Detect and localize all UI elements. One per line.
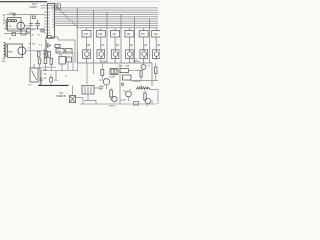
wire Q3 side leads [41,68,47,82]
resistor R4 [38,59,41,64]
inductor L2 core hatches [138,86,148,88]
label C7b 4/0x [2,59,7,64]
label L1 [9,26,12,28]
capacitor C3a electrolytic [27,29,31,33]
svg-text:C3B: C3B [125,66,130,68]
wire Y1 leads [73,86,84,105]
wire Q7 leads [120,90,145,100]
label MPS A05 [99,86,104,91]
module boxes MM531 [56,49,64,54]
transistor Q3 block [30,68,38,82]
label T2 [148,66,151,68]
wire heavy bottom bus of switch row [38,84,69,86]
wire cathode rail right drop [151,63,153,86]
svg-text:TRRETB: TRRETB [56,95,66,98]
pin block U1 bottom [47,36,52,39]
transistor T2 [141,65,146,70]
svg-text:7C3: 7C3 [84,33,89,36]
wire node D long vertical [30,15,32,69]
capacitor C5 [55,44,60,47]
resistor R12 [21,31,26,35]
inductor L2 [137,88,150,90]
capacitor C11 [50,78,53,83]
svg-text:SMD: SMD [8,52,13,54]
pin labels [9] on display drops [87,44,160,47]
svg-text:[9]: [9] [157,44,160,47]
display DS1 [83,50,91,59]
resistor R9 [155,67,158,74]
value labels driver blocks [84,33,158,36]
transistor Q4 [103,79,109,85]
wire Q1 leads [14,15,28,29]
inductor L1 turns [9,19,12,22]
pin numbers U1 left column [49,12,50,33]
transformer T1 core line [5,43,7,57]
label SMD [8,52,13,54]
display DS5 [140,50,148,59]
ground rail bottom [80,103,156,105]
resistor R3 [48,51,51,57]
wire segment bus line b [55,8,159,10]
resistor R10 [144,93,146,100]
node C junction [121,83,123,85]
svg-text:MM: MM [57,51,61,53]
svg-text:[9]: [9] [145,44,148,47]
resistor R7 [120,69,129,73]
value labels 0.5 8.8 [43,54,63,57]
wire node A drop [86,63,88,84]
pin numbers U1 right column [53,7,54,27]
svg-text:C38006: C38006 [132,61,140,63]
wire segment bus line j [55,26,159,28]
resistor R5 [101,69,104,75]
svg-text:[9]: [9] [130,44,133,47]
wire R7 to T2 [129,70,141,72]
capacitor C3 [32,16,35,19]
wire U1 left pin stubs [44,12,48,33]
wire Q5 leads and node B vertical [111,64,120,101]
wire B+ top rail (dark left segment) [0,1,47,3]
wire ground ties [94,63,153,104]
transistor Q5 [112,96,117,101]
capacitor C14 [67,57,72,62]
capacitor C4 plates [35,20,40,29]
label C3B00b [133,81,142,83]
transistor Q1 [17,22,25,30]
display DS2 [97,50,105,59]
transistor Q6 [126,91,132,97]
capacitor C12 [44,58,47,64]
wire junction stub [43,49,45,51]
capacitor C13 [50,58,53,64]
driver block A1 [82,31,91,38]
wire Q6 leads [123,90,129,101]
wire digit select verticals [77,8,150,63]
resistor R8 [140,71,142,78]
display DS4 [126,50,134,59]
wire cathode rail [78,62,152,64]
driver block A5 [139,31,148,38]
label Pa.s +5 [54,76,68,82]
driver block A3 [111,31,120,38]
wire segment bus line d [55,12,159,14]
driver block A4 [125,31,134,38]
svg-text:[9]: [9] [87,44,90,47]
capacitor C2 plates [29,24,33,26]
wire segment bus line g [55,19,159,21]
svg-text:23i: 23i [113,33,117,36]
svg-text:of dFda: of dFda [108,106,116,108]
svg-text:(+5): (+5) [30,35,34,37]
label X11 C38006 [132,59,140,64]
wire C10 C11 leads [41,71,51,85]
transformer T1 primary box [8,18,22,32]
label U.Dk [101,62,107,64]
display DS6 [152,50,160,59]
svg-text:87i: 87i [141,33,145,36]
capacitor C1 [13,13,15,15]
resistor R6 [110,90,113,97]
svg-text:12b: 12b [154,33,159,36]
svg-text:[9]: [9] [116,44,119,47]
label of dFda [108,104,149,108]
svg-text:CHNLY: CHNLY [29,5,38,9]
svg-text:117 V.A.C.: 117 V.A.C. [2,14,5,25]
wire J1 leads [84,88,103,101]
transformer T1 secondary winding [4,43,6,58]
resistor R11 [12,33,16,36]
label B+L [29,85,34,87]
wire left tie to bottom bus [39,71,41,85]
connector J1 [82,86,94,95]
labels (+5) C3 81 8.8 3.0 10 [28,35,43,50]
wire mid cluster verticals [56,52,78,80]
wire L2 leads [129,90,158,105]
svg-text:10l: 10l [127,33,131,36]
svg-text:128: 128 [98,33,103,36]
driver block A2 [96,31,105,38]
wire segment bus line h [55,21,159,23]
svg-text:U.Dk: U.Dk [101,62,107,64]
label LCE C3B [119,66,130,68]
display DS3 [111,50,119,59]
wire Q2 output [6,46,44,56]
label +F W [9,30,34,41]
wire display cathode drops [87,59,157,64]
oscillator module box U3 [8,44,23,58]
label 1C5 [9,13,14,15]
label MM 531 [57,51,71,53]
label 117 V.A.C. (rotated) [2,14,5,25]
wire B+ top rail (faint right segment) [47,1,160,3]
capacitor C9 [123,75,132,80]
label D.C. ONLY [29,2,38,9]
svg-text:LCE: LCE [119,66,124,68]
transformer T1 winding loops [6,19,8,29]
resistor R2 [45,51,47,57]
wire Q1 emitter to node [4,30,30,34]
svg-text:Y^.: Y^. [146,104,149,107]
wire segment bus line e [55,15,159,17]
capacitor C8 [55,4,61,9]
wire Q4 connections [99,64,114,90]
wire U1 bottom leads [51,37,75,63]
resistor R1 [37,51,40,57]
capacitor C6 pair block [110,69,118,75]
wire segment bus line a [55,6,159,8]
wire U1 lower-left pins [46,38,47,56]
wire mid cluster links [38,62,78,71]
module box U2 [59,57,66,65]
diode D1 [48,44,51,48]
label Dk [140,86,144,88]
driver block A6 [152,31,161,38]
wire driver-to-display drops [87,37,157,50]
wire segment bus line f [55,17,159,19]
crystal Y1 [70,96,76,103]
wire anode drops to driver blocks [87,28,157,31]
transistor Q2 [18,47,26,55]
wire oscillator top rails [4,15,44,30]
wire segment bus line i [55,23,159,25]
svg-text:81 8.8: 81 8.8 [29,44,36,46]
svg-text:C3B00b: C3B00b [133,81,142,83]
wire segment bus line c [55,10,159,12]
label 311 TRRETB [56,92,66,98]
diode D2 [134,102,139,106]
op-amp U1 clock chip MM5314 [48,4,55,39]
capacitor C10 [40,76,43,85]
capacitor C4b [41,29,44,32]
wire right cluster links [130,63,158,81]
wire AC input pair to U1 [41,6,55,9]
transistor Q7 [145,98,150,103]
svg-text:[9]: [9] [102,44,105,47]
